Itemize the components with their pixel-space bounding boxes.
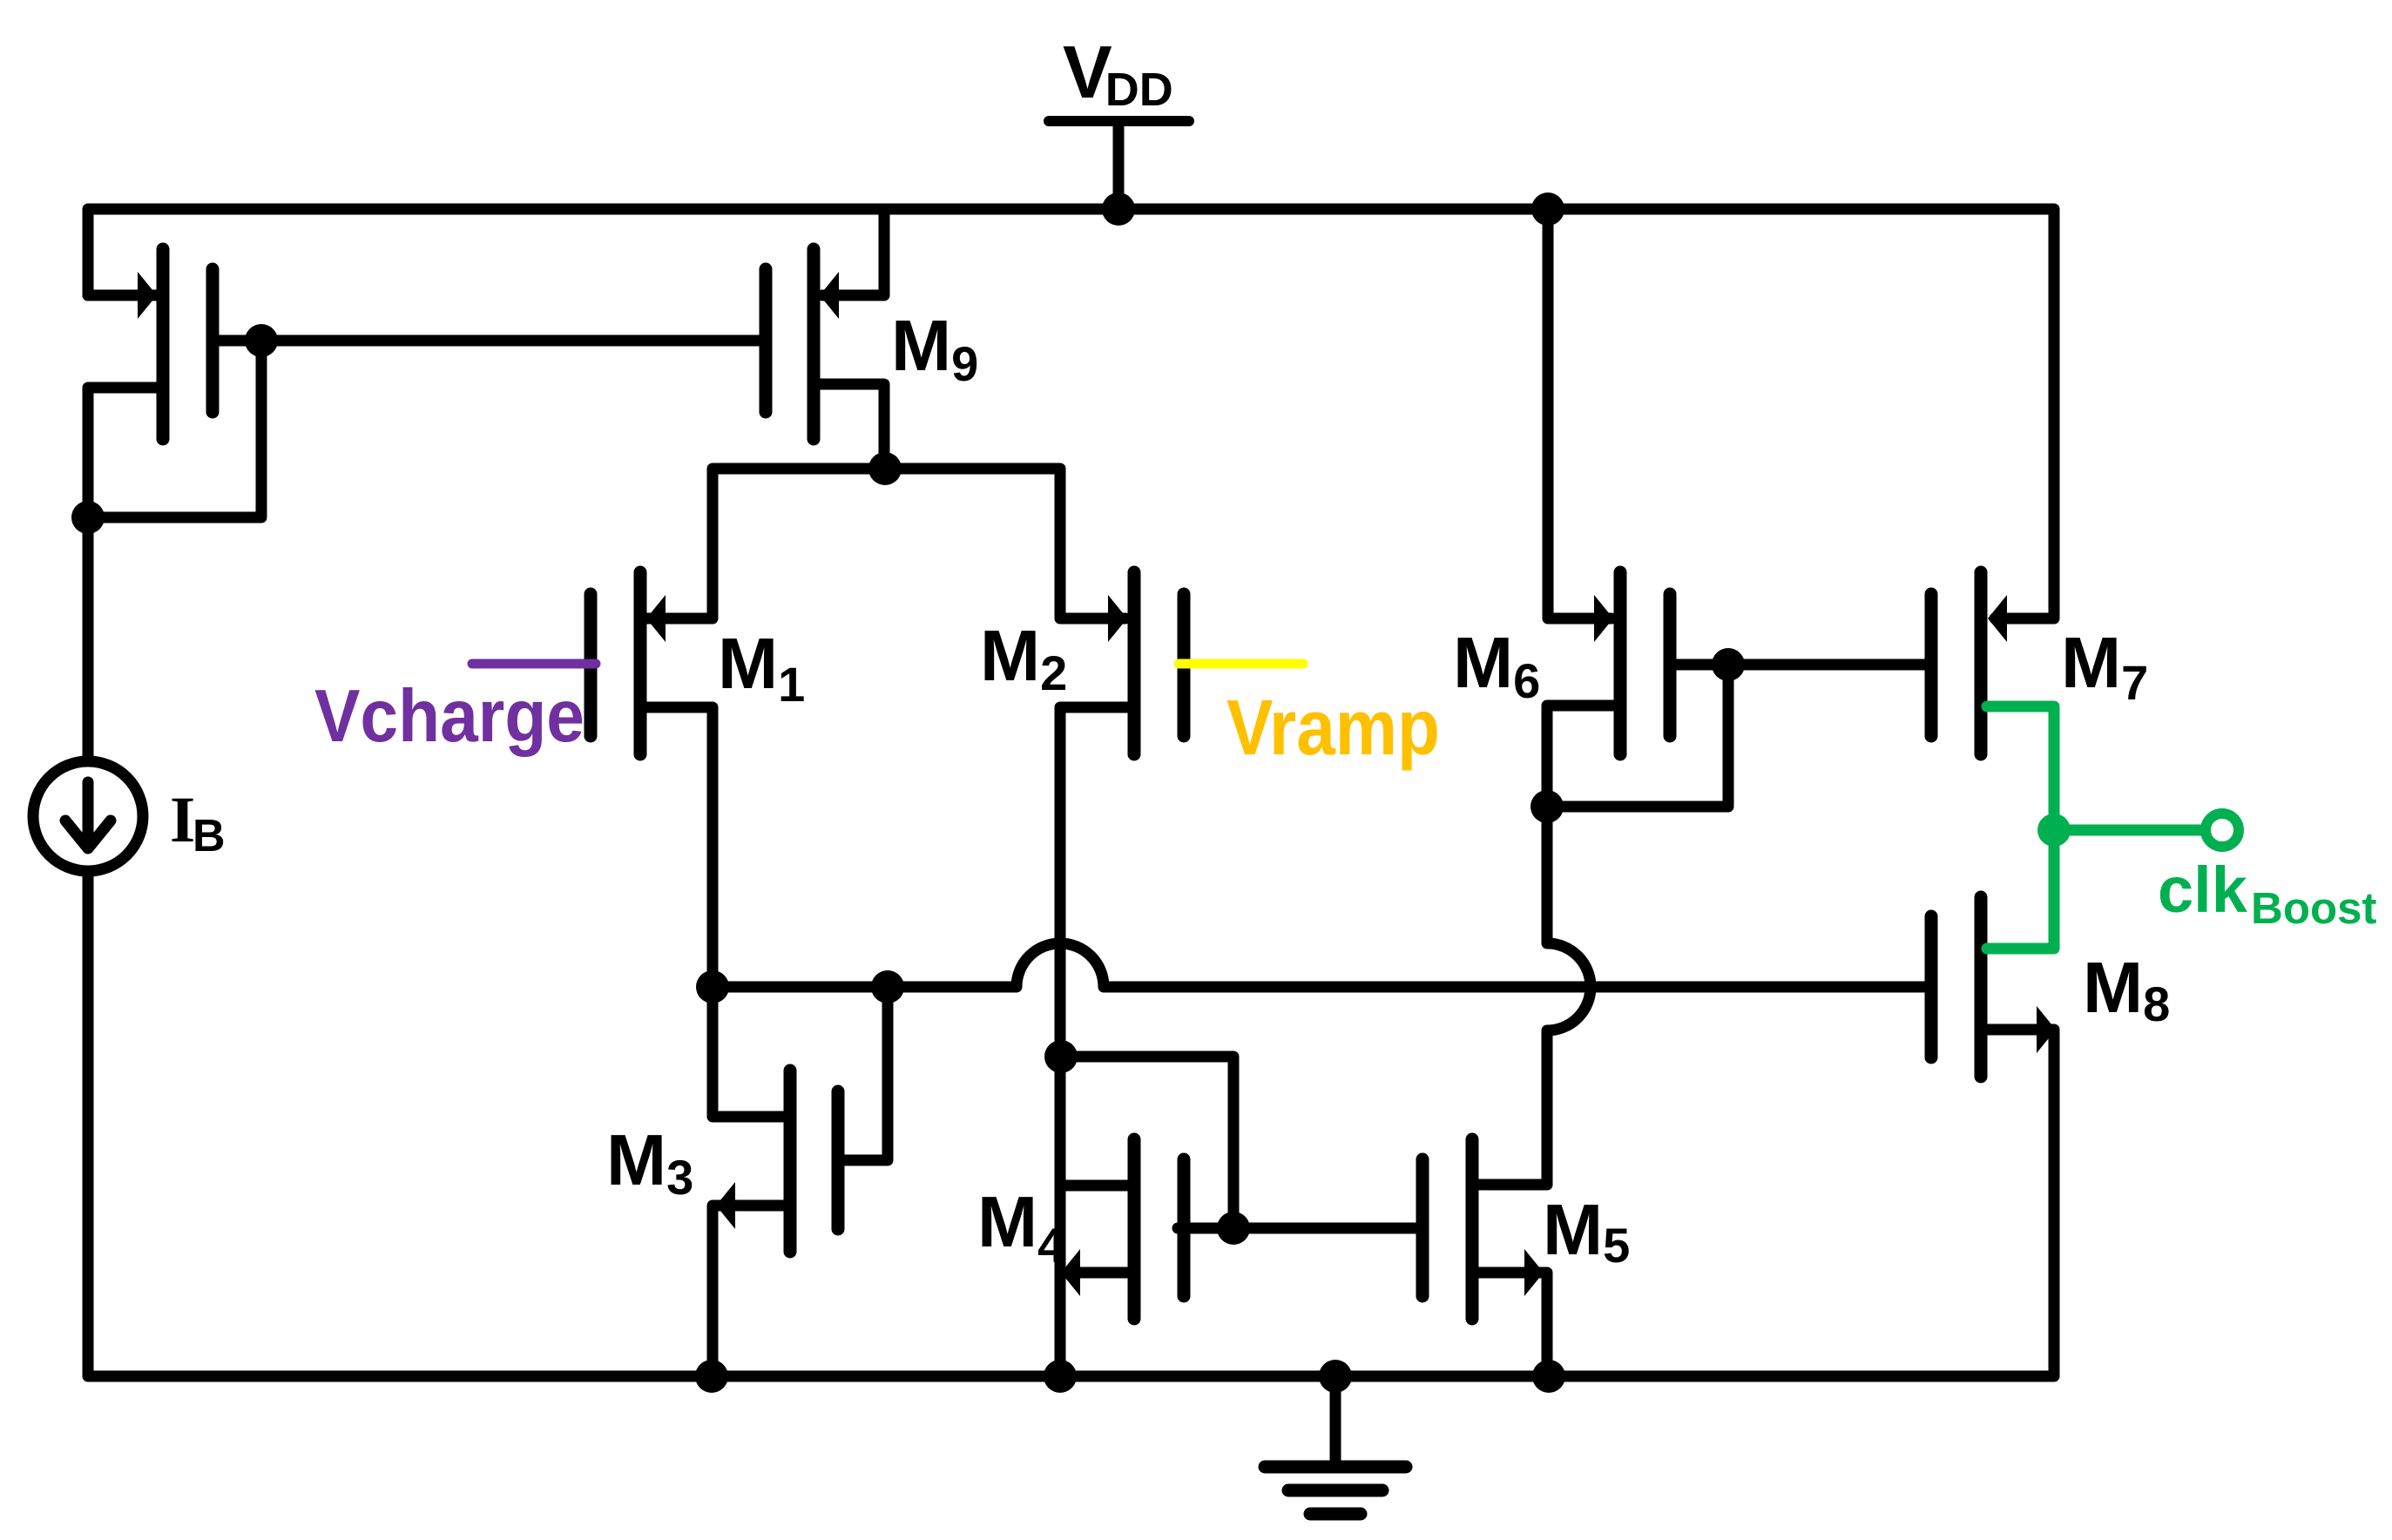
svg-text:Vcharge: Vcharge [314,675,584,758]
svg-text:clk: clk [2158,854,2248,926]
svg-text:B: B [193,811,226,861]
svg-text:Boost: Boost [2251,883,2377,933]
svg-text:I: I [170,784,195,856]
svg-text:Vramp: Vramp [1226,685,1440,772]
